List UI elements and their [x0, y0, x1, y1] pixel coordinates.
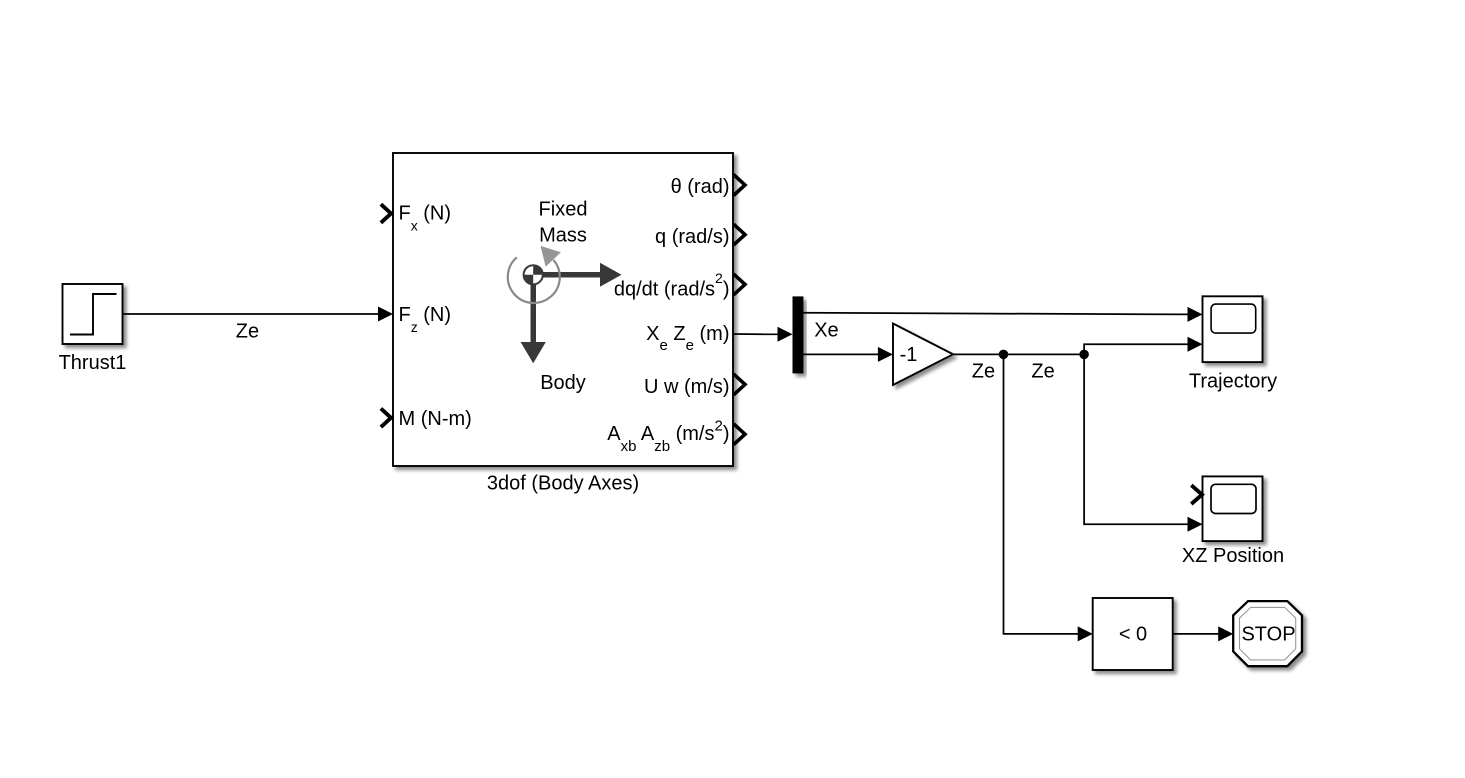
wire Thrust1 to 3dof F_z input	[123, 307, 394, 322]
svg-text:M (N-m): M (N-m)	[399, 408, 472, 430]
junction dot 2	[1079, 350, 1089, 360]
unconnected input chevron port 3 M	[381, 409, 391, 428]
svg-text:3dof (Body Axes): 3dof (Body Axes)	[487, 473, 639, 495]
svg-text:Fixed: Fixed	[539, 199, 588, 221]
output chevron port 6 A	[734, 424, 746, 445]
svg-text:U w (m/s): U w (m/s)	[644, 376, 730, 398]
unconnected input chevron XZ Position in1	[1191, 485, 1202, 504]
wire dot2 to Trajectory in2	[1084, 337, 1202, 355]
compare block < 0	[1093, 598, 1173, 670]
svg-text:Xe: Xe	[814, 320, 838, 342]
step source Thrust1	[63, 284, 123, 344]
gain block -1	[893, 324, 953, 386]
svg-text:Thrust1: Thrust1	[59, 352, 127, 374]
demux bar	[793, 296, 804, 373]
junction dot 1	[999, 350, 1009, 360]
STOP block octagon	[1233, 601, 1302, 666]
svg-text:Body: Body	[540, 372, 586, 394]
wire demux out2 to gain	[803, 347, 893, 362]
output chevron port 2 q	[734, 224, 746, 245]
wire X_e Z_e output to demux	[733, 327, 793, 342]
wire demux out1 to Trajectory in1	[803, 307, 1202, 322]
3dof (Body Axes) block body	[393, 153, 733, 466]
wire gain output to junction dot2	[953, 353, 1084, 355]
svg-text:q (rad/s): q (rad/s)	[655, 226, 729, 248]
output chevron port 5 U w	[734, 374, 746, 395]
output chevron port 1 theta	[734, 175, 746, 196]
svg-text:< 0: < 0	[1119, 623, 1147, 645]
svg-text:Ze: Ze	[972, 361, 995, 383]
wire dot2 down to XZ Position in2	[1084, 354, 1202, 531]
icon body axes: vertical arrow	[521, 275, 546, 363]
svg-text:STOP: STOP	[1241, 624, 1295, 646]
svg-text:Ze: Ze	[236, 320, 259, 342]
wire dot1 down to compare block	[1004, 354, 1093, 641]
icon rotation arc	[508, 257, 560, 303]
svg-text:Ze: Ze	[1031, 361, 1054, 383]
output chevron port 3 dq/dt	[734, 274, 746, 295]
svg-text:XZ Position: XZ Position	[1182, 545, 1284, 567]
icon center-of-mass circle	[524, 265, 543, 284]
svg-text:-1: -1	[900, 344, 918, 366]
svg-text:Mass: Mass	[539, 224, 587, 246]
wire compare to STOP	[1173, 626, 1234, 641]
icon body axes: horizontal arrow	[533, 263, 622, 287]
scope block XZ Position	[1203, 476, 1263, 541]
unconnected input chevron port 1 F_x	[381, 204, 391, 223]
svg-text:θ (rad): θ (rad)	[671, 176, 730, 198]
icon rotation arc arrowhead	[541, 246, 561, 267]
scope block Trajectory	[1203, 296, 1263, 362]
svg-text:Trajectory: Trajectory	[1189, 371, 1277, 393]
